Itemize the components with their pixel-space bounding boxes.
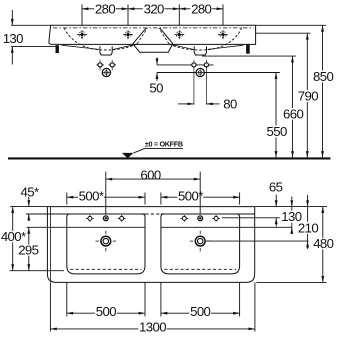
svg-text:210: 210 [298, 220, 318, 235]
svg-text:320: 320 [144, 2, 164, 17]
svg-text:295: 295 [18, 243, 38, 258]
svg-text:280: 280 [191, 2, 211, 17]
svg-text:80: 80 [223, 96, 237, 111]
svg-text:790: 790 [298, 89, 318, 104]
svg-text:600: 600 [140, 168, 160, 183]
svg-text:500: 500 [96, 304, 116, 319]
svg-text:550: 550 [266, 124, 286, 139]
svg-text:500*: 500* [79, 188, 104, 203]
svg-text:65: 65 [269, 180, 283, 195]
svg-text:130: 130 [3, 31, 23, 46]
svg-text:±0 = OKFFB: ±0 = OKFFB [145, 139, 183, 148]
svg-text:660: 660 [283, 106, 303, 121]
svg-text:850: 850 [313, 69, 333, 84]
svg-text:500*: 500* [178, 188, 203, 203]
svg-text:280: 280 [95, 2, 115, 17]
svg-text:50: 50 [149, 80, 163, 95]
svg-text:480: 480 [313, 236, 333, 251]
svg-text:45*: 45* [20, 184, 38, 199]
svg-text:500: 500 [190, 304, 210, 319]
svg-text:1300: 1300 [139, 319, 166, 334]
